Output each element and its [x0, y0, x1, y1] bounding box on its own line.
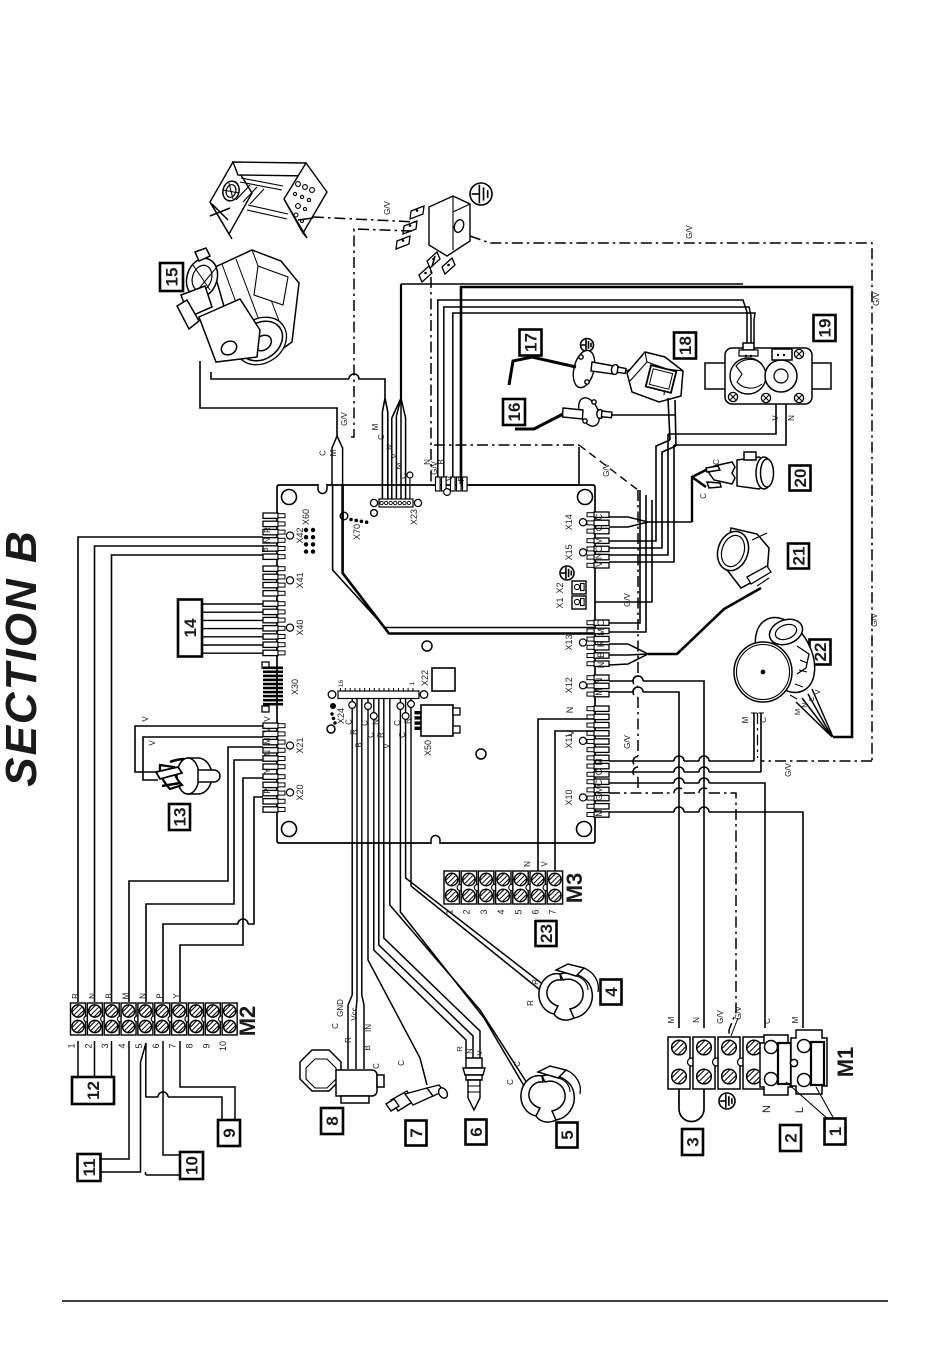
main PCB board outline [277, 485, 595, 843]
svg-text:C: C [399, 473, 408, 479]
svg-text:6: 6 [151, 1043, 161, 1048]
X42 N wire to M2-2 [95, 546, 264, 1002]
svg-text:V: V [382, 743, 391, 749]
callout 14 [178, 600, 202, 657]
callout 17 [520, 330, 542, 356]
X40 wires to callout 14 [202, 603, 263, 605]
svg-text:5: 5 [558, 1130, 577, 1139]
svg-text:C: C [372, 1063, 381, 1069]
mounting bracket (control box chassis) [210, 162, 327, 239]
PCB top edge connector pins (N B V R) [436, 477, 441, 491]
limit thermostat (item 20) [706, 452, 774, 489]
connector X2 [572, 581, 586, 594]
svg-text:C: C [594, 513, 604, 520]
X42 B wire to M2-3 [112, 555, 264, 1002]
wire pump C/M pair crossing PCB to X13 [333, 485, 594, 628]
svg-text:C: C [366, 732, 375, 738]
callout 11 [78, 1154, 101, 1181]
callout 19 [814, 315, 836, 341]
svg-text:R: R [344, 1037, 353, 1043]
svg-text:10: 10 [218, 1041, 228, 1051]
wire to item 7 (C) [368, 843, 427, 1085]
svg-text:6: 6 [531, 909, 541, 914]
PCB mounting hole bottom-right [577, 822, 592, 837]
callout 3 [682, 1129, 703, 1155]
M1 earth symbol [719, 1093, 735, 1109]
svg-text:9: 9 [201, 1043, 211, 1048]
callout 15 [160, 263, 183, 291]
svg-text:M1: M1 [833, 1047, 858, 1078]
wire V PCB edge to gas valve [453, 313, 755, 477]
svg-text:X21: X21 [295, 738, 305, 754]
M1 fuse holder (item 1 left) [760, 1035, 792, 1095]
X23 pin 7 stub with pad [409, 478, 411, 499]
svg-text:X10: X10 [564, 789, 574, 805]
svg-text:21: 21 [790, 547, 809, 566]
svg-text:N: N [263, 750, 272, 756]
NTC sensor (item 7) [386, 1085, 449, 1111]
callout 13 [169, 804, 190, 830]
connector X10 on PCB right edge [594, 779, 609, 784]
wire electrode 17 to transformer [626, 364, 648, 371]
svg-text:17: 17 [522, 333, 541, 352]
connector X23 header [379, 499, 413, 507]
svg-text:16: 16 [505, 403, 524, 422]
wires to item 5 (C C) [390, 843, 527, 1091]
svg-text:C: C [361, 720, 370, 726]
svg-text:C: C [712, 459, 721, 465]
svg-text:N: N [596, 662, 606, 669]
svg-text:R: R [596, 640, 606, 647]
svg-text:SECTION B: SECTION B [0, 529, 46, 787]
wire M3-6 to X11-N inside board [538, 719, 594, 843]
PCB bottom edge notch [431, 836, 440, 845]
transformer output stubs [668, 398, 676, 446]
svg-text:11: 11 [80, 1159, 99, 1177]
svg-text:G/V: G/V [872, 291, 881, 305]
callout 10 [180, 1152, 203, 1179]
earth block spade terminal [396, 236, 410, 249]
svg-text:R: R [455, 1046, 464, 1052]
svg-text:M: M [122, 992, 131, 999]
callout 8 [321, 1108, 343, 1134]
svg-text:C: C [397, 1060, 406, 1066]
svg-text:3: 3 [479, 909, 489, 914]
ignition transformer (item 18) [627, 352, 683, 402]
wires to item 8 (C GND / R Vcc / B IN) [348, 843, 364, 1069]
G/V dash-dot vertical x=638 down middle [633, 490, 638, 792]
svg-text:Vcc: Vcc [350, 1007, 359, 1020]
flame sense electrode (item 16) [515, 395, 612, 430]
M1 fuse holder (item 1 right) [790, 1030, 827, 1094]
X13 R B N wires merge to heavy wire to item 21 [609, 644, 648, 665]
X1 wire [586, 500, 652, 602]
svg-text:5: 5 [513, 909, 523, 914]
svg-text:R: R [263, 527, 272, 533]
svg-text:X12: X12 [564, 677, 574, 693]
svg-text:14: 14 [181, 618, 200, 637]
svg-text:M: M [594, 809, 604, 817]
svg-text:N: N [523, 861, 532, 867]
valve V N wires down-left to X15 [668, 404, 786, 445]
terminal block M3 [444, 871, 459, 904]
wire G/V earth block to right edge and down (dash-dot) [470, 236, 872, 761]
connector X40 on PCB left edge [263, 601, 278, 606]
PCB top edge notch [318, 484, 327, 494]
overheat thermostat (item 21) [713, 527, 771, 588]
svg-text:13: 13 [171, 808, 190, 827]
X15 wires up to transformer and valve [609, 440, 676, 548]
svg-text:N: N [565, 707, 575, 714]
earth symbol near distribution block [470, 183, 492, 205]
svg-text:Y: Y [263, 768, 272, 774]
svg-text:G/V: G/V [383, 200, 392, 214]
svg-text:23: 23 [537, 924, 556, 943]
clip-on thermostat (item 4) [539, 964, 598, 1020]
svg-text:B: B [261, 547, 270, 552]
svg-text:X2: X2 [555, 582, 565, 593]
water pressure switch (item 8) [300, 1050, 384, 1103]
svg-text:C: C [393, 720, 402, 726]
wire N PCB edge to gas valve [438, 300, 747, 477]
wires M3 6,7 up to PCB [538, 843, 555, 871]
callout 20 [790, 466, 811, 491]
svg-text:V: V [594, 561, 604, 567]
gas valve (item 19) [705, 343, 831, 404]
svg-text:15: 15 [163, 268, 182, 287]
fan wire fan-out M N C V [796, 689, 833, 737]
svg-text:N: N [138, 993, 147, 999]
wires to item 4 (R R) [406, 843, 545, 994]
svg-text:4: 4 [602, 987, 621, 997]
clip-on thermostat (item 5) [521, 1066, 580, 1122]
svg-text:M3: M3 [562, 873, 587, 904]
svg-text:G/V: G/V [623, 734, 632, 748]
quad merge arrow N V M C into X23 [392, 398, 406, 499]
svg-text:C: C [377, 434, 386, 440]
svg-text:C: C [594, 768, 604, 775]
svg-text:GND: GND [336, 999, 345, 1017]
callout 1 leaders [786, 1082, 834, 1119]
svg-text:C: C [594, 524, 604, 531]
callout 1 [825, 1119, 846, 1145]
callout 18 [674, 333, 696, 359]
connector X11 on PCB right edge [594, 706, 609, 711]
svg-text:C: C [319, 450, 328, 456]
svg-text:G/V: G/V [623, 592, 632, 606]
svg-text:IN: IN [364, 1024, 373, 1032]
svg-text:X1: X1 [555, 597, 565, 608]
wire pump C to merge arrow (horizontal y=408) [200, 361, 337, 436]
svg-text:X13: X13 [564, 635, 574, 651]
callout 23 [536, 921, 557, 946]
svg-text:M: M [594, 688, 604, 696]
G/V dash wire X edge to diagonal and down [434, 444, 579, 446]
wire pump M to X23 (horizontal y=379) [211, 372, 385, 398]
svg-text:X40: X40 [295, 620, 305, 636]
svg-text:X15: X15 [564, 544, 574, 560]
svg-text:C: C [331, 1023, 340, 1029]
callout 6 [466, 1120, 487, 1145]
svg-text:P: P [263, 788, 272, 793]
svg-text:G/V: G/V [602, 462, 611, 476]
PCB mounting hole bottom-left [282, 822, 297, 837]
relay X50 [421, 705, 453, 736]
svg-text:M: M [263, 737, 272, 744]
svg-text:M: M [667, 1016, 676, 1023]
wires M2 1,2,3 to callout 12 [78, 1041, 112, 1077]
svg-text:L: L [794, 1107, 806, 1113]
svg-text:20: 20 [791, 469, 810, 488]
PCB via hole B [476, 749, 486, 759]
X42 R wire to M2-1 [78, 537, 263, 1002]
svg-text:V: V [148, 740, 157, 746]
connector X12 on PCB right edge [594, 675, 609, 680]
svg-text:C: C [506, 1079, 515, 1085]
svg-text:V: V [263, 727, 272, 733]
X24 test pads on wires [349, 702, 356, 709]
connector X21 on PCB left edge [263, 723, 278, 728]
svg-text:X42: X42 [295, 528, 305, 544]
svg-text:N: N [385, 444, 394, 450]
wire B PCB edge to gas valve [444, 307, 751, 477]
svg-text:G/V: G/V [595, 786, 604, 800]
svg-text:C: C [513, 1061, 522, 1067]
svg-text:19: 19 [816, 319, 835, 338]
svg-text:7: 7 [407, 1128, 426, 1137]
svg-text:6: 6 [467, 1127, 486, 1136]
svg-text:9: 9 [220, 1128, 239, 1137]
svg-text:2: 2 [782, 1133, 801, 1142]
svg-text:M: M [741, 716, 750, 723]
svg-text:R: R [531, 979, 540, 985]
test pad group X60 [304, 528, 308, 532]
svg-text:C: C [594, 779, 604, 786]
svg-text:12: 12 [84, 1081, 103, 1100]
merge arrow M C into X23 [382, 398, 387, 499]
svg-text:1: 1 [409, 681, 416, 685]
svg-text:4: 4 [117, 1043, 127, 1048]
svg-text:B: B [596, 652, 606, 658]
svg-text:B: B [363, 1045, 372, 1050]
earth symbol on electrode 17 [581, 339, 594, 352]
svg-text:R: R [350, 729, 359, 735]
svg-text:X14: X14 [564, 514, 574, 530]
X10 C wire to M1 col5 [609, 778, 765, 1028]
wire bracket earth stub [298, 218, 313, 220]
callout 4 [601, 980, 622, 1005]
connector X13 on PCB right edge [594, 620, 609, 625]
svg-text:G/V: G/V [685, 224, 694, 238]
svg-text:V: V [141, 716, 150, 722]
X12 M wire to M1 col1 [609, 687, 679, 1028]
svg-text:R: R [526, 1000, 535, 1006]
heavy wire from valve loop down into X23 quad arrow [400, 284, 402, 398]
svg-text:X41: X41 [295, 572, 305, 588]
connector X1 [572, 596, 586, 609]
svg-text:B: B [354, 742, 363, 747]
svg-text:G/V: G/V [784, 762, 793, 776]
svg-text:2: 2 [462, 909, 472, 914]
earth test point on PCB near X2 [560, 566, 574, 580]
svg-text:C: C [763, 1018, 772, 1024]
svg-text:X23: X23 [409, 509, 419, 525]
G/V leader diagonal [731, 1018, 738, 1036]
X11 M wire to fan pigtail [609, 756, 754, 761]
X20 Y wire to M2-7 [180, 778, 263, 1002]
svg-text:C: C [699, 493, 708, 499]
svg-text:G/V: G/V [870, 612, 879, 626]
connector X14 on PCB right edge [594, 512, 609, 517]
X14 C C wires merge to heavy wire [609, 517, 692, 527]
wire G/V bracket to earth block (dash-dot) [313, 217, 416, 222]
sensor (item 13) [156, 758, 220, 794]
svg-text:M: M [395, 462, 404, 469]
wire M2-6 to callout 10 [146, 1041, 180, 1175]
bottom horizontal rule [62, 1300, 888, 1302]
svg-text:X70: X70 [352, 524, 362, 540]
svg-text:M2: M2 [235, 1006, 260, 1037]
svg-text:C: C [759, 717, 768, 723]
svg-text:G/V: G/V [734, 1005, 743, 1019]
fan assembly (item 22) [734, 607, 827, 702]
connector X15 on PCB right edge [594, 538, 609, 543]
svg-text:V: V [475, 1050, 484, 1055]
earth block spade terminal [403, 221, 417, 234]
svg-text:P: P [155, 993, 164, 998]
connector X41 on PCB left edge [263, 566, 278, 571]
svg-text:8: 8 [323, 1116, 342, 1125]
svg-text:B: B [105, 993, 114, 998]
PCB mounting hole top-right [578, 490, 593, 505]
svg-text:Y: Y [172, 993, 181, 999]
X12 N wire to M1 col2 [609, 676, 704, 1028]
connector X42 on PCB left edge [263, 513, 278, 518]
solid helper wire y=485 [467, 447, 579, 485]
svg-text:3: 3 [684, 1137, 703, 1146]
X10 M wire to M1 col6 [609, 807, 803, 1028]
pump P1 (item 15) [177, 248, 299, 375]
connector X20 on PCB left edge [263, 774, 278, 779]
svg-text:V: V [540, 861, 549, 867]
X21 N wire to M2-5 [146, 760, 263, 1002]
X10 G/V wire to M1 col3 (dash-dot) [609, 788, 736, 1037]
mains loop (item 3) [679, 1089, 704, 1122]
svg-text:3: 3 [100, 1043, 110, 1048]
svg-text:7: 7 [168, 1043, 178, 1048]
heavy wire to item 20 spade arrows [692, 470, 706, 522]
X21 M wire to M2-4 [129, 747, 263, 1002]
svg-text:C: C [345, 719, 354, 725]
svg-text:N: N [800, 702, 809, 707]
svg-text:N: N [594, 553, 604, 560]
svg-text:G/V: G/V [716, 1009, 725, 1023]
test pad group X70 [340, 512, 348, 520]
svg-text:X30: X30 [290, 679, 300, 695]
svg-text:R: R [404, 718, 413, 724]
PCB mounting hole top-left [282, 490, 297, 505]
svg-text:N: N [787, 415, 796, 421]
svg-text:7: 7 [548, 909, 558, 914]
component X22 [432, 668, 455, 691]
wire G/V earth block down to PCB edge (dash-dot x=431) [431, 256, 435, 484]
svg-text:4: 4 [496, 909, 506, 914]
svg-text:X50: X50 [423, 740, 433, 756]
callout 16 [503, 399, 525, 425]
wire M2-4 to callout 11 [101, 1041, 129, 1159]
svg-text:M: M [371, 423, 380, 430]
svg-text:C: C [594, 545, 604, 552]
PCB via hole A [422, 641, 432, 651]
svg-text:X20: X20 [295, 784, 305, 800]
svg-text:R: R [71, 993, 80, 999]
fan M C G/V pigtails down to X11 wires [754, 713, 761, 772]
terminal block M2 [71, 1003, 86, 1035]
earth block spade terminal [427, 252, 440, 268]
svg-text:C: C [398, 732, 407, 738]
connector X30 on PCB left edge (dense comb) [262, 662, 269, 668]
merge arrow pump pair C M into PCB [332, 436, 343, 485]
svg-text:R: R [376, 732, 385, 738]
callout 9 [218, 1120, 240, 1146]
wires to item 6 (R N V) [374, 843, 480, 1058]
X13 C M wires up to bundle [609, 490, 646, 632]
svg-text:M: M [594, 758, 604, 766]
earth block spade terminal [410, 206, 424, 219]
svg-text:M: M [596, 628, 606, 636]
svg-text:16: 16 [338, 680, 345, 688]
svg-text:1: 1 [445, 909, 455, 914]
earth block spade terminal [442, 258, 455, 274]
svg-text:N: N [594, 678, 604, 685]
wire M2-7 to callout 9 [180, 1041, 235, 1120]
earth block spade terminal [419, 266, 432, 282]
terminal block M1 columns 1-4 [668, 1037, 690, 1089]
callout 5 [557, 1123, 578, 1148]
svg-text:N: N [88, 993, 97, 999]
svg-text:M: M [793, 709, 802, 715]
svg-text:N: N [263, 537, 272, 543]
svg-text:8: 8 [184, 1043, 194, 1048]
svg-text:X60: X60 [301, 509, 311, 525]
ignition electrode (item 17) [509, 348, 626, 390]
svg-text:10: 10 [183, 1156, 202, 1175]
connector X24 header inside PCB [338, 691, 419, 699]
callout 21 [788, 544, 809, 569]
svg-text:V: V [390, 453, 399, 459]
svg-text:N: N [465, 1048, 474, 1053]
twin wire arrow into M2-5 [101, 1043, 146, 1172]
svg-text:N: N [761, 1105, 773, 1113]
wire G/V dash-dot from right edge to fan (y=761) [761, 760, 872, 762]
X20 P wire to M2-6 (hop over Y) [163, 797, 263, 1002]
heavy cable from fan item 22 up right side [461, 287, 852, 737]
svg-text:M: M [329, 449, 338, 456]
svg-text:G/V: G/V [340, 411, 349, 425]
svg-text:X22: X22 [420, 670, 430, 686]
svg-text:V: V [263, 716, 272, 722]
callout 2 [780, 1125, 801, 1151]
svg-text:N: N [692, 1017, 701, 1023]
X24 label and test pads [330, 703, 336, 709]
svg-text:1: 1 [826, 1127, 845, 1136]
callout 12 [72, 1077, 114, 1104]
callout 7 [406, 1121, 427, 1146]
wire electrode 16 to bundle [612, 414, 676, 416]
svg-text:18: 18 [676, 336, 695, 355]
svg-text:5: 5 [134, 1043, 144, 1048]
callout 22 [810, 640, 831, 665]
